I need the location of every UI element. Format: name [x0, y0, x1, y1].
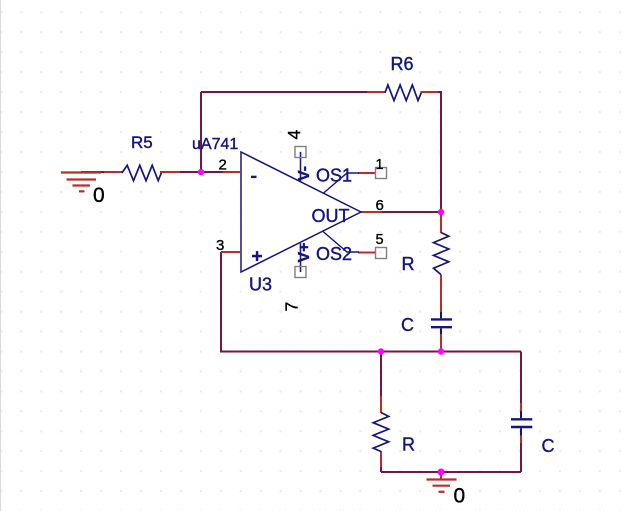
svg-text:C: C	[542, 436, 555, 456]
junction mid rail right dot	[438, 348, 444, 354]
wire: feedback vertical from node A to top	[81, 92, 521, 472]
svg-text:1: 1	[376, 157, 384, 173]
svg-text:OUT: OUT	[312, 206, 350, 226]
svg-text:4: 4	[284, 130, 304, 140]
pin 4 terminal square	[295, 147, 306, 158]
svg-text:R: R	[402, 435, 415, 455]
junction mid rail left dot	[378, 348, 384, 354]
svg-text:uA741: uA741	[192, 136, 238, 153]
pin 7 stub V+	[300, 243, 302, 272]
wire: R6 right to corner and down to output node	[437, 92, 441, 212]
resistor R5 pins	[104, 171, 123, 173]
mid C pins	[440, 305, 442, 313]
svg-text:2: 2	[219, 157, 227, 174]
svg-text:R5: R5	[131, 133, 153, 152]
wire: bottom R to bottom rail	[380, 466, 382, 472]
wire: mid rail to bottom R	[380, 352, 382, 399]
pin 7 terminal square	[295, 267, 306, 278]
OS1 leader line	[323, 173, 359, 194]
resistor R mid	[434, 233, 449, 275]
op-amp pin 5 stub	[358, 252, 376, 254]
left window edge	[0, 0, 2, 511]
svg-text:7: 7	[282, 302, 302, 312]
svg-text:3: 3	[216, 237, 224, 254]
op-amp pin 2 stub	[223, 171, 240, 173]
op-amp plus input mark	[252, 255, 262, 257]
ground 0 left	[61, 173, 101, 192]
junction node A dot	[198, 169, 204, 175]
resistor R bottom	[373, 413, 389, 452]
op-amp pin 3 stub	[221, 251, 240, 253]
resistor R6	[385, 85, 421, 101]
wire: bottom rail	[381, 471, 521, 473]
junction output node dot	[438, 209, 444, 215]
wire: pin3 down and across to mid rail	[221, 252, 521, 352]
svg-text:0: 0	[454, 485, 466, 508]
svg-text:R: R	[402, 254, 415, 274]
svg-text:V+: V+	[296, 242, 313, 262]
svg-text:0: 0	[93, 184, 105, 207]
svg-text:U3: U3	[249, 275, 272, 295]
wire: output node to R branch handled by pins	[381, 211, 441, 213]
ground bottom stem	[440, 472, 442, 479]
capacitor C mid	[431, 312, 452, 334]
op-amp pin 6 stub	[361, 211, 382, 213]
svg-text:OS2: OS2	[316, 244, 352, 264]
wire: node A to pin 2	[201, 171, 224, 173]
pin 1 terminal square	[376, 168, 387, 179]
pin 5 terminal square	[376, 248, 387, 259]
op-amp pin 1 stub	[358, 172, 376, 174]
OS2 leader line	[323, 232, 359, 253]
wire: R5 to node A	[179, 171, 201, 173]
mid R pins	[440, 213, 442, 233]
svg-text:C: C	[401, 315, 414, 335]
right C pins	[520, 403, 522, 412]
wire: ground-left to R5	[81, 171, 113, 173]
resistor R6 pins	[367, 91, 386, 93]
junction bottom rail dot	[438, 469, 445, 476]
svg-text:6: 6	[376, 197, 384, 214]
svg-text:R6: R6	[391, 54, 414, 74]
op-amp U3 triangle	[241, 152, 361, 272]
ground 0 bottom	[427, 480, 457, 492]
bottom R pins	[380, 396, 382, 413]
pin 4 stub V-	[300, 152, 302, 182]
red pin stubs	[104, 92, 521, 479]
wire: right branch down to C	[520, 352, 522, 405]
wire: right C bottom to bottom rail	[520, 442, 522, 472]
wire: feedback top horizontal to R6	[201, 91, 368, 93]
capacitor C right	[511, 411, 532, 436]
resistor R5	[122, 165, 161, 180]
svg-text:OS1: OS1	[316, 166, 352, 186]
svg-text:5: 5	[376, 232, 384, 248]
op-amp minus input mark	[251, 176, 257, 178]
svg-text:V-: V-	[296, 166, 313, 181]
